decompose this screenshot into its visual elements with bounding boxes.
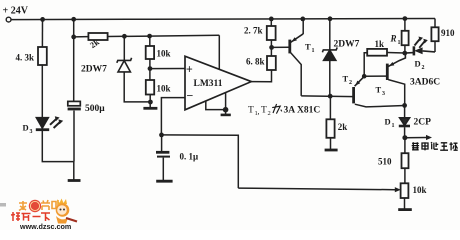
node junction battery tap — [402, 135, 407, 140]
node junction plus input — [148, 66, 153, 71]
ground 0.1u — [156, 180, 172, 183]
wire 510 bottom — [404, 168, 406, 183]
svg-text:10k: 10k — [157, 49, 171, 59]
label note T1 T2 are 3AX81C — [248, 106, 271, 118]
wire to plus input — [150, 68, 185, 70]
svg-text:0. 1μ: 0. 1μ — [180, 152, 199, 162]
wire 910 top lead — [434, 19, 436, 28]
wire zener1 bottom to ground node — [124, 72, 150, 102]
svg-text:T: T — [261, 106, 267, 116]
svg-text:T: T — [305, 42, 311, 52]
svg-text:,: , — [258, 107, 260, 116]
svg-text:4. 3k: 4. 3k — [16, 53, 35, 63]
svg-text:2: 2 — [268, 110, 271, 117]
ground mid-left — [143, 107, 157, 110]
wire R1 top lead — [404, 19, 406, 31]
node junction top rail A — [40, 17, 45, 22]
wire 510 top lead — [404, 138, 406, 154]
resistor R 4.3k — [38, 47, 47, 65]
watermark logo dzsc — [11, 199, 77, 232]
node junction 2k tap — [71, 35, 76, 40]
scan mark left edge — [0, 203, 6, 207]
svg-text:3: 3 — [382, 91, 385, 97]
wire 2.7k to 6.8k — [270, 40, 272, 56]
resistor 2.7k — [267, 26, 276, 40]
wire op-amp output — [251, 70, 271, 82]
svg-text:510: 510 — [378, 157, 392, 167]
wire rail2 left segment — [74, 36, 89, 38]
glyph wei (CJK) — [272, 104, 282, 114]
diode zener 2DW7 second — [322, 47, 337, 60]
wire to ground left — [73, 162, 75, 180]
wire between 10k pair — [149, 59, 151, 80]
wire zener2 bottom lead — [329, 60, 331, 96]
node junction T-collectors — [402, 103, 407, 108]
transistor Q3 T3 — [387, 53, 405, 105]
node +24V terminal — [6, 17, 11, 22]
resistor 10k upper — [146, 46, 154, 59]
watermark red text — [11, 212, 50, 221]
op-amp U1 LM311 — [185, 56, 251, 110]
wire op-amp ground pin 4 — [225, 92, 227, 109]
svg-text:2. 7k: 2. 7k — [244, 26, 263, 36]
transistor Q2 T2 — [354, 76, 405, 107]
svg-text:T: T — [376, 85, 382, 95]
wire D1 bottom — [404, 127, 406, 138]
ground op-amp — [225, 110, 227, 114]
ground 2k second — [325, 149, 338, 152]
svg-text:+: + — [186, 64, 193, 76]
wire 0.1u bottom — [162, 158, 164, 181]
wire zener1 top lead — [123, 36, 125, 60]
svg-text:−: − — [187, 91, 194, 103]
wire T3 base — [364, 75, 387, 77]
svg-text:1k: 1k — [375, 39, 385, 49]
diode D3 LED — [36, 116, 63, 130]
svg-text:D: D — [385, 117, 391, 127]
node junction zener1 tap — [122, 34, 127, 39]
node junction T1 base tap — [269, 45, 274, 50]
wire T2 emitter to 1k — [364, 53, 367, 76]
svg-text:2CP: 2CP — [414, 118, 432, 128]
wire battery arrow — [405, 137, 427, 139]
wire 500u bottom — [73, 111, 75, 162]
potentiometer 10k — [401, 183, 409, 198]
svg-text:10k: 10k — [157, 84, 171, 94]
node junction R1-1k-LED — [402, 51, 407, 56]
node junction T2 emitter — [362, 74, 367, 79]
ground pot — [398, 208, 412, 211]
wire 910 bottom — [434, 41, 436, 52]
resistor R1 — [402, 31, 409, 45]
svg-text:www.dzsc.com: www.dzsc.com — [19, 222, 71, 230]
wire mid horizontal T1-T2 — [301, 95, 354, 98]
resistor 10k lower — [146, 80, 154, 95]
diode D1 — [399, 118, 410, 126]
svg-text:10k: 10k — [413, 185, 427, 195]
svg-text:2: 2 — [422, 65, 425, 71]
wire pot wiper arrow — [238, 188, 395, 190]
svg-text:T: T — [343, 74, 349, 84]
wire feedback run to pot — [162, 135, 239, 188]
svg-text:D: D — [23, 123, 29, 133]
watermark seal — [29, 200, 41, 212]
resistor 1k — [367, 49, 387, 56]
wire 2k-2 bottom — [330, 138, 332, 149]
resistor 910 — [431, 27, 438, 41]
node junction 10k tap — [147, 34, 152, 39]
node junction top rail F — [403, 16, 408, 21]
wire D3 bottom to ground run — [42, 131, 73, 162]
node junction zener2 bottom — [328, 94, 333, 99]
diode D2 LED — [405, 37, 435, 56]
wire R1 bottom — [404, 45, 406, 53]
wire op-amp ground pin 1 — [206, 101, 226, 110]
node junction ground mid-left — [148, 100, 153, 105]
svg-text:3A X81C: 3A X81C — [284, 106, 321, 116]
node junction minus-input net — [159, 133, 164, 138]
capacitor 500u — [68, 101, 81, 105]
svg-text:1: 1 — [312, 48, 315, 54]
wire 10k-2 bottom — [149, 95, 151, 108]
diode zener 2DW7 first — [117, 58, 132, 72]
wire node to D1 — [404, 105, 406, 117]
resistor 2k second — [326, 119, 334, 138]
wire 500u branch vertical from rail — [73, 19, 75, 101]
wire 2.7k top lead — [270, 19, 272, 26]
ground left column — [68, 179, 81, 182]
resistor 510 — [402, 153, 409, 168]
node junction top rail E — [328, 16, 333, 21]
node junction op-amp gnd — [223, 107, 229, 113]
svg-text:3: 3 — [30, 129, 33, 135]
wire 2k-2 top lead — [329, 96, 331, 119]
svg-text:3AD6C: 3AD6C — [410, 78, 440, 88]
wire 4.3k to D3 — [41, 65, 43, 117]
transistor Q1 T1 — [290, 19, 303, 96]
node junction top rail B — [71, 17, 76, 22]
svg-text:LM311: LM311 — [194, 79, 223, 89]
resistor 2k — [88, 33, 107, 40]
label battery positive terminal (CJK) — [412, 142, 458, 150]
capacitor 0.1u — [161, 135, 163, 152]
wire zener2 top lead — [329, 19, 331, 50]
wire pot bottom — [404, 198, 406, 209]
wire 1k right to node — [387, 52, 405, 55]
svg-text:6. 8k: 6. 8k — [246, 57, 265, 67]
svg-text:910: 910 — [441, 28, 455, 38]
wire op-amp V+ pin — [218, 35, 220, 69]
wire top +24V rail — [11, 19, 435, 20]
svg-text:2DW7: 2DW7 — [334, 40, 360, 50]
wire 10k-1 top lead — [149, 36, 151, 46]
svg-text:500μ: 500μ — [85, 104, 105, 114]
svg-text:2: 2 — [349, 80, 352, 86]
svg-text:2k: 2k — [338, 122, 348, 132]
svg-text:T: T — [248, 106, 254, 116]
svg-text:1: 1 — [398, 40, 401, 46]
node junction top rail C — [269, 17, 274, 22]
svg-text:2DW7: 2DW7 — [81, 65, 107, 75]
node junction top rail D — [300, 17, 305, 22]
resistor 6.8k — [267, 56, 276, 70]
svg-text:D: D — [415, 59, 421, 69]
wire minus input — [161, 98, 185, 135]
svg-text:1: 1 — [392, 123, 395, 129]
watermark mascot — [56, 199, 77, 224]
wire 4.3k top lead — [41, 19, 43, 47]
svg-text:+ 24V: + 24V — [3, 6, 29, 17]
wire rail2 right segment — [108, 35, 220, 36]
svg-text:R: R — [390, 34, 397, 44]
wire T1 base — [272, 46, 289, 48]
